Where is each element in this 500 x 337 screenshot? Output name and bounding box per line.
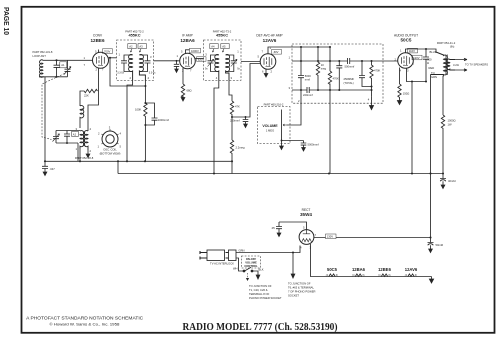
resistor 1000 ohm 1W [441,115,444,174]
wire T2 pin4 B+ drop [144,80,146,103]
svg-text:470K: 470K [333,77,339,81]
svg-text:LOOP ANT: LOOP ANT [33,54,47,58]
junction dots IF bypass [338,60,340,91]
10meg label [321,63,327,71]
svg-text:GRN: GRN [239,249,245,253]
trimmer label box A2 in T2 [128,44,136,53]
junction dot screen feed [144,85,146,87]
wire 12BA6 top stub [186,50,190,54]
resistor 10meg [316,47,319,89]
svg-text:1000mmf: 1000mmf [158,118,169,122]
B- bus upper [45,160,232,162]
resistor 150 ohm cathode [398,84,401,99]
svg-text:VOLUME: VOLUME [245,261,257,265]
B- bus lower [118,173,443,175]
junction dot AVC [231,116,233,118]
svg-text:TO TV SPEAKERS: TO TV SPEAKERS [465,63,488,67]
trimmer A1 label box [60,62,67,68]
B+ rail vertical [430,75,432,238]
250mmf label [344,77,355,85]
voltage callout -60V [272,50,282,55]
osc coil pin numbers [98,126,122,149]
T2 primary coil [129,55,133,81]
speaker arrows [455,58,467,71]
svg-text:PART #52-131-8: PART #52-131-8 [33,50,53,54]
svg-text:12AV6: 12AV6 [263,38,277,43]
assembly pin labels [289,56,370,104]
svg-text:DET-AVC-AF AMP: DET-AVC-AF AMP [256,33,282,37]
wire 50C5 screen to B+ [407,68,427,173]
wire 12BA6 plate to T3 [195,58,203,60]
svg-text:110V: 110V [409,49,415,53]
svg-text:A2: A2 [129,45,133,49]
svg-text:BLUE: BLUE [430,50,437,54]
svg-text:CONTROL: CONTROL [244,264,258,268]
voltage callout 620V [197,57,207,62]
volume control dashed box [258,107,291,144]
svg-text:150Ω: 150Ω [403,92,410,96]
secondary return vertical [442,75,445,116]
tube V3 12AV6 [260,54,276,70]
svg-text:TERMINAL 8 OF: TERMINAL 8 OF [249,292,270,296]
svg-text:35W4: 35W4 [300,212,312,217]
svg-text:.047: .047 [50,167,56,171]
svg-text:120V: 120V [413,56,419,60]
junction dot plate line [425,48,427,50]
svg-text:3): 3) [362,274,364,277]
audio return line [292,87,372,93]
svg-text:220mmf: 220mmf [230,119,240,123]
pin labels 12AV6 [258,46,273,74]
svg-text:meg: meg [321,68,327,71]
loop antenna L1 [39,60,44,77]
ground below 150 ohm [397,99,401,105]
oscillator transformer T1 primary [80,131,84,149]
svg-text:PART #50-216-2: PART #50-216-2 [264,103,284,107]
T2 cap values [117,72,156,75]
heater string ground [429,277,433,284]
svg-text:3.3-5x: 3.3-5x [149,72,156,75]
capacitor C1A (across loop) [54,60,60,77]
capacitor 1000mmf bypass [145,103,157,125]
junction dot B+ [429,236,431,238]
capacitor 250mmf tone [359,61,372,87]
wire osc trimmer top [56,130,80,132]
wire AC line to 35W4 heater [236,246,300,253]
tube V1 12BE6 [93,52,109,68]
capacitor line filter [276,222,282,237]
wire detector return to bus [329,90,331,174]
pin labels 12BE6 [84,50,105,72]
svg-text:1000V: 1000V [191,49,199,53]
T2 secondary coil [139,55,145,81]
wire 35W4 plate up and left [279,222,307,230]
svg-text:(9h): (9h) [450,46,454,49]
wire 12BE6 screen drop [110,58,145,86]
svg-text:455KC: 455KC [216,33,228,38]
pin labels 35W4 [300,226,317,250]
wire color GRN [431,71,437,79]
capacitor plate bypass [423,49,429,82]
svg-text:100K: 100K [135,108,141,112]
svg-text:VOLUME: VOLUME [262,124,278,128]
svg-text:TV AC INTERLOCK: TV AC INTERLOCK [210,262,234,266]
svg-text:470K: 470K [374,69,380,73]
wire 12BE6 top stub [98,50,100,53]
wire 50C5 cathode [399,68,401,85]
wire coupling vertical c [300,47,302,90]
wire 12AV6 plate up to coupling line [268,47,330,54]
branch down to phono arrow [291,253,295,279]
voltage callout 130V [326,234,337,239]
svg-text:PHONO POWER SOCKET: PHONO POWER SOCKET [249,296,282,300]
grid return cap 12BA6 [174,61,179,73]
bus step at 118 [117,161,119,173]
trimmer label box A3 in T2 [138,44,146,53]
IF transformer T2 label [125,29,144,37]
IF transformer T2 dashed box [117,40,154,80]
resistor 68 ohm cathode [181,84,184,97]
output transformer T4 primary [431,52,448,75]
VOLUME text [262,124,278,133]
svg-text:22K: 22K [84,94,89,98]
tube 50C5 labels [394,33,418,42]
T2 primary tuning cap [121,55,133,72]
capacitor 5000mmf coupling [298,76,304,81]
svg-text:1 MEG: 1 MEG [266,129,274,133]
svg-text:A5: A5 [222,45,226,49]
svg-text:A1: A1 [61,63,65,67]
junction dot node ant-bottom [55,76,57,78]
wire antenna bottom [39,76,68,78]
svg-text:1W: 1W [448,123,452,127]
wire T3 out to 12AV6 grid [241,61,260,63]
tube V5 35W4 [299,230,314,245]
svg-text:3): 3) [388,274,390,277]
capacitor .047 to ground [42,161,48,175]
electrolytic 50mfd [428,238,434,253]
IF transformer T3 dashed box [204,40,242,80]
junction dots return line [300,85,373,91]
svg-text:A4: A4 [211,45,215,49]
svg-text:(BOTTOM VIEW): (BOTTOM VIEW) [100,152,121,156]
output transformer T4 secondary [447,59,455,70]
heater element 12BA6 [355,274,361,277]
link arrowhead [246,278,249,281]
50C5 heater label [326,267,338,277]
5000mmf label [305,74,311,82]
svg-text:PART #54-41-2: PART #54-41-2 [437,41,456,45]
junction dots screen line [411,80,427,82]
oscillator transformer T1 pins labels [76,127,92,153]
pin labels 50C5 [395,49,415,73]
svg-text:TO JUNCTION OF: TO JUNCTION OF [288,282,311,286]
osc coil bottom view [101,129,118,147]
T3 primary coil [215,55,219,81]
junction dot grid [176,60,178,62]
junction dot filter [442,172,444,174]
resistor 22K osc grid [83,89,98,92]
wire T1 pin1 to bus [79,149,81,162]
svg-text:220mmf: 220mmf [303,93,313,97]
T3 secondary trimmer cap [226,55,238,72]
svg-text:A2: A2 [73,132,77,136]
wire T2 pin2 AVC drop [127,80,133,161]
svg-text:.05: .05 [271,226,275,230]
voltage callout 120V [412,55,422,60]
dashed gang link to tuning [42,74,65,140]
trimmer capacitor A1 [64,60,71,77]
AC interlock plug [200,250,236,261]
junction dot 220mmf [245,116,247,118]
on-off switch S1 [243,267,253,272]
svg-text:PART #52-38-8: PART #52-38-8 [75,156,94,160]
oscillator transformer T1 secondary [83,131,88,150]
svg-text:mmf: mmf [305,78,310,82]
svg-text:GRN: GRN [431,75,437,79]
IF transformer T3 label [213,29,232,37]
junction dots detector line [300,46,373,62]
T3 primary trimmer cap [208,55,219,72]
12BA6 heater label [352,267,366,277]
ground at pin 4 [370,97,374,110]
resistor 47K AVC [230,101,233,117]
wire antenna top to 12BE6 grid [44,59,93,61]
note to junction T1 [249,284,282,300]
wire T3 pin3 down [229,80,232,101]
heater element 12BE6 [381,274,387,277]
1000 ohm 1W label [448,119,456,127]
svg-text:(TOTAL): (TOTAL) [344,81,354,85]
note to junction T6 [288,282,316,298]
resistor 470K no2 grid [370,61,373,97]
junction dot pot bottom [281,140,283,142]
svg-text:50C5: 50C5 [401,37,412,42]
tube 12BA6 labels [180,33,195,43]
wire T3 pin4 down to bus [214,80,219,173]
capacitor osc padder [64,131,70,144]
resistor 2.2meg [230,140,233,163]
junction dot osc bottom [66,142,68,144]
svg-text:10: 10 [321,63,324,67]
svg-text:600: 600 [427,58,432,62]
svg-text:5000mmf: 5000mmf [308,143,319,147]
wire 12BA6 cathode [182,68,184,84]
wire 35W4 cathode B+ 130V line [314,237,431,239]
ON-OFF VOLUME CONTROL text [244,257,258,268]
svg-text:RED: RED [429,66,435,70]
electrolytic 40mfd [440,174,446,189]
svg-text:RADIO MODEL 7777 (Ch. 528.5319: RADIO MODEL 7777 (Ch. 528.53190) [183,322,338,333]
branch to 220mmf and 12AV6 grid leg [232,64,260,118]
svg-text:3.3-5x: 3.3-5x [117,72,124,75]
output transformer T4 label [437,41,456,49]
tube V2 12BA6 [180,53,196,69]
svg-text:12BE6: 12BE6 [378,267,391,272]
trimmer capacitor osc [53,131,60,144]
ground 12AV6 cathode [264,69,268,77]
loop antenna L1 label [33,50,53,58]
voltage callout 110V [408,48,418,53]
trimmer A2 label box [72,132,79,137]
svg-text:455KC: 455KC [128,33,140,38]
svg-text:3): 3) [336,274,338,277]
svg-text:ON-OFF: ON-OFF [246,257,257,261]
junction dot AC branch [292,251,294,253]
svg-text:7 OF PHONO POWER: 7 OF PHONO POWER [288,290,316,294]
svg-text:OSC. COIL: OSC. COIL [103,148,117,152]
resistor 470K no1 [328,71,331,84]
volume assembly dashed box [292,44,383,103]
svg-text:CONV: CONV [93,33,103,37]
pot bottom bypass wire [282,140,304,142]
svg-text:2.2meg: 2.2meg [236,146,245,150]
svg-text:250MMF: 250MMF [344,77,355,81]
svg-text:TO JUNCTION OF: TO JUNCTION OF [249,284,272,288]
svg-text:500mmf: 500mmf [345,65,355,69]
junction dots RC [144,102,146,126]
heater element 12AV6 [408,274,414,277]
tube V4 50C5 [398,53,414,69]
T3 secondary coil [226,55,230,81]
svg-text:SOCKET: SOCKET [288,294,299,298]
wire AVC node [231,117,233,140]
junction dot screen [109,57,111,59]
voltage callout 700V [103,49,113,54]
detector line with 500mmf [292,58,398,64]
svg-text:12BE6: 12BE6 [90,38,104,43]
pot bottom ground [280,141,284,150]
svg-text:T1, C20, C26 &: T1, C20, C26 & [249,288,268,292]
svg-text:620V: 620V [198,57,204,61]
svg-text:130V: 130V [327,235,333,239]
svg-text:1000Ω: 1000Ω [448,119,456,123]
capacitor 220mmf AVC bypass [243,117,249,128]
wire 470K no1 vertical [329,47,331,90]
wire lower prong to switch [236,258,244,271]
svg-text:12BA6: 12BA6 [352,267,366,272]
svg-text:TO: TO [431,71,435,75]
wire antenna down leg [44,77,46,162]
svg-text:12AV6: 12AV6 [405,267,418,272]
junction dot node ant-top [55,59,57,61]
svg-text:68Ω: 68Ω [187,89,192,93]
primary value 600 ohm [427,58,432,66]
12BE6 heater label [378,267,391,277]
potentiometer element [282,110,287,141]
wire 35W4 pin3 to heater string [311,244,432,277]
coil L5 osc feedback [80,106,84,128]
svg-text:3): 3) [415,274,417,277]
svg-text:50mfd: 50mfd [436,243,444,247]
capacitor 5000mmf pot bypass [301,141,307,152]
wire T2 pin3 to 12BA6 grid [154,60,180,62]
wire 12BE6 cathode down [88,68,99,131]
svg-text:700V: 700V [104,49,110,53]
heater element 50C5 [329,274,335,277]
T2 secondary tuning cap [139,55,150,72]
svg-text:T6, #63 & TERMINAL: T6, #63 & TERMINAL [288,286,314,290]
trimmer label box A5 in T3 [221,44,229,53]
pin labels 12BA6 [177,50,193,73]
T3 pin numbers [205,50,239,81]
svg-text:12BA6: 12BA6 [180,38,195,43]
capacitor detector IF bypass [336,61,342,90]
wire 12BE6 plate to T2 [108,57,116,59]
svg-text:PAGE 10: PAGE 10 [2,7,11,35]
wiper wire to pin2 [287,90,302,125]
12AV6 heater label [405,267,418,277]
svg-text:A PHOTOFACT STANDARD NOTATION: A PHOTOFACT STANDARD NOTATION SCHEMATIC [26,316,143,321]
trimmer label box A4 in T3 [210,44,218,53]
junction dots on buses [44,160,432,174]
tube 12AV6 labels [256,33,282,43]
page number label [2,7,11,35]
svg-text:WH: WH [233,267,238,271]
ground below 68 ohm [181,96,185,102]
wire switch to phono arrow [252,271,260,279]
svg-text:5000: 5000 [305,74,311,78]
wire 22K left to osc coil [80,91,83,106]
T2 pin numbers [119,53,153,81]
ON-OFF VOLUME CONTROL dashed box [242,256,261,268]
ground below T1 pin2 [86,150,90,158]
svg-text:IF AMP: IF AMP [182,33,192,37]
bus drop at 232 [231,161,233,173]
svg-text:-60V: -60V [273,50,279,54]
svg-text:40mfd: 40mfd [448,179,456,183]
svg-text:50C5: 50C5 [327,267,338,272]
voltage callout 1000V [190,48,201,53]
svg-text:3.2Ω: 3.2Ω [453,63,459,67]
svg-text:Ω: Ω [427,61,429,65]
svg-text:47K: 47K [235,105,240,109]
svg-text:© Howard W. Sams & Co., Inc. 1: © Howard W. Sams & Co., Inc. 1958 [49,322,119,326]
wire osc trimmer bottom [56,143,78,161]
T3 cap values [205,68,241,71]
resistor 100K decoupling [144,103,147,161]
svg-text:BLK: BLK [259,268,264,272]
tube 12BE6 labels [90,33,104,43]
tube 35W4 labels [300,208,312,217]
osc coil caption [100,148,121,156]
switch mechanical link arrow [247,273,249,278]
wire 50C5 plate line [406,49,437,53]
svg-text:A3: A3 [139,45,143,49]
